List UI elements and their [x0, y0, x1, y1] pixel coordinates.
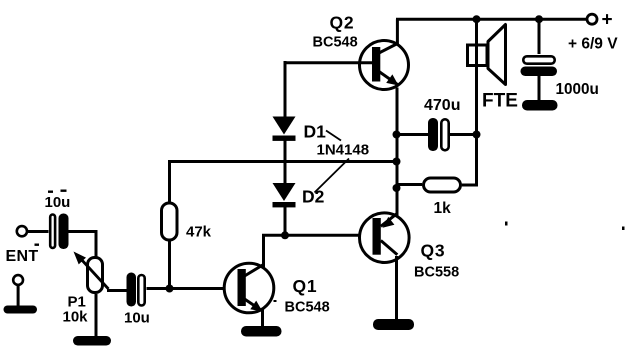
- svg-text:BC548: BC548: [285, 300, 330, 316]
- wire cap to P1 top: [69, 232, 97, 257]
- node mid-line junction: [393, 158, 401, 166]
- svg-text:10k: 10k: [63, 309, 89, 326]
- wire 1k left lead: [397, 183, 423, 186]
- svg-text:10u: 10u: [124, 310, 150, 327]
- wire P1 wiper to coupling cap: [107, 289, 127, 292]
- wire Q2 base corner down to D1: [284, 61, 287, 117]
- svg-text:D1: D1: [304, 122, 327, 142]
- node 47k/cap/Q1-base junction: [166, 285, 174, 293]
- wire 1k right lead corner up: [462, 135, 477, 186]
- wire top supply rail: [396, 18, 586, 21]
- node 1k junction: [393, 184, 401, 192]
- ground input: [4, 306, 38, 314]
- wire 1000u bottom lead: [538, 76, 541, 100]
- wire 1000u top lead: [538, 19, 541, 54]
- capacitor 1000u: [521, 56, 558, 76]
- node rail-1000u junction: [535, 15, 543, 23]
- svg-text:10u: 10u: [45, 194, 71, 211]
- potentiometer P1: [74, 252, 109, 293]
- ground Q3: [373, 319, 414, 330]
- resistor 47k: [162, 203, 178, 240]
- wire node to Q1 collector: [264, 235, 286, 268]
- svg-text:D2: D2: [302, 187, 325, 207]
- wire 470u left lead: [397, 133, 429, 136]
- wire Q2 base wire: [285, 61, 372, 64]
- node 470u junction: [393, 131, 401, 139]
- wire speaker vertical: [475, 19, 478, 134]
- node D2/Q1/Q3 junction: [281, 231, 289, 239]
- wire between D1 and D2: [284, 141, 287, 184]
- capacitor 10u input (ENT side): [50, 214, 68, 250]
- svg-text:ENT: ENT: [6, 248, 39, 265]
- speck noise marks: [48, 191, 53, 193]
- svg-text:1000u: 1000u: [556, 81, 599, 98]
- svg-text:BC548: BC548: [313, 35, 358, 51]
- svg-text:Q2: Q2: [330, 13, 355, 33]
- terminal ENT input: [17, 226, 27, 236]
- svg-text:+: +: [602, 10, 613, 31]
- wire Q3 collector to ground: [395, 256, 398, 320]
- wire Q2 collector to rail: [396, 19, 399, 45]
- diode D1: [273, 117, 296, 141]
- wire ENT terminal to cap: [27, 230, 49, 233]
- svg-text:Q3: Q3: [421, 241, 446, 261]
- wire input ground terminal: [17, 285, 20, 307]
- wire Q1 emitter to ground: [261, 308, 264, 327]
- transistor Q3: [360, 213, 410, 263]
- ground 1000u: [522, 100, 558, 111]
- node 470u/speaker/1k junction: [473, 131, 481, 139]
- wire 470u right lead: [450, 133, 477, 136]
- svg-text:47k: 47k: [186, 224, 212, 241]
- diode D2: [273, 183, 296, 207]
- speaker FTE box: [468, 45, 488, 66]
- node rail-speaker junction: [473, 15, 481, 23]
- ground P1: [73, 336, 111, 346]
- wire node to Q3 base: [285, 234, 372, 237]
- transistor Q1: [224, 263, 274, 313]
- wire main vertical Q2 emitter to Q3: [396, 88, 399, 219]
- svg-text:1N4148: 1N4148: [317, 142, 370, 159]
- terminal ground input: [13, 275, 23, 285]
- terminal + supply: [587, 14, 597, 24]
- wire Q1 base wire: [147, 287, 238, 290]
- wire P1 bottom to ground: [95, 294, 98, 337]
- transistor Q2: [360, 41, 409, 90]
- svg-text:FTE: FTE: [482, 91, 518, 112]
- svg-text:470u: 470u: [424, 97, 460, 114]
- svg-text:Q1: Q1: [293, 276, 318, 296]
- capacitor 10u coupling: [127, 273, 145, 307]
- svg-text:BC558: BC558: [414, 265, 459, 281]
- svg-text:1k: 1k: [434, 200, 452, 217]
- wire D2 down to node: [284, 207, 287, 235]
- ground Q1: [241, 326, 282, 337]
- wire 47k bottom lead: [168, 240, 171, 289]
- label pointer D1 to 1N4148: [326, 131, 341, 141]
- speaker FTE horn: [488, 25, 506, 85]
- wire mid line 47k top to main vertical: [170, 162, 397, 203]
- resistor 1k: [424, 178, 461, 192]
- capacitor 470u: [428, 118, 449, 151]
- label pointer 1N4148 to D2: [315, 159, 350, 193]
- svg-text:+ 6/9 V: + 6/9 V: [568, 36, 618, 53]
